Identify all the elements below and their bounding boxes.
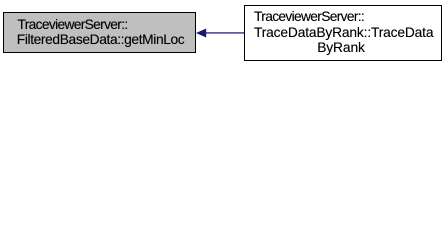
arrowhead pointing at Node1 [196, 29, 206, 38]
node Node2 label line 2 [254, 25, 433, 41]
edge Node2 -> Node1 (caller arrow, midnightblue) [0, 0, 448, 67]
node Node2 label line 3 (centered) [317, 40, 365, 56]
node Node1: TraceviewerServer::FilteredBaseData::getMinLoc (current node, grey) [3, 12, 196, 53]
node Node1 label line 1 [18, 17, 128, 33]
wire: arrow shaft [205, 32, 244, 33]
node Node2 label line 1 [254, 9, 364, 25]
node Node1 label line 2 [17, 32, 185, 48]
node Node2: TraceviewerServer::TraceDataByRank::TraceDataByRank (caller node, white) [244, 5, 442, 61]
